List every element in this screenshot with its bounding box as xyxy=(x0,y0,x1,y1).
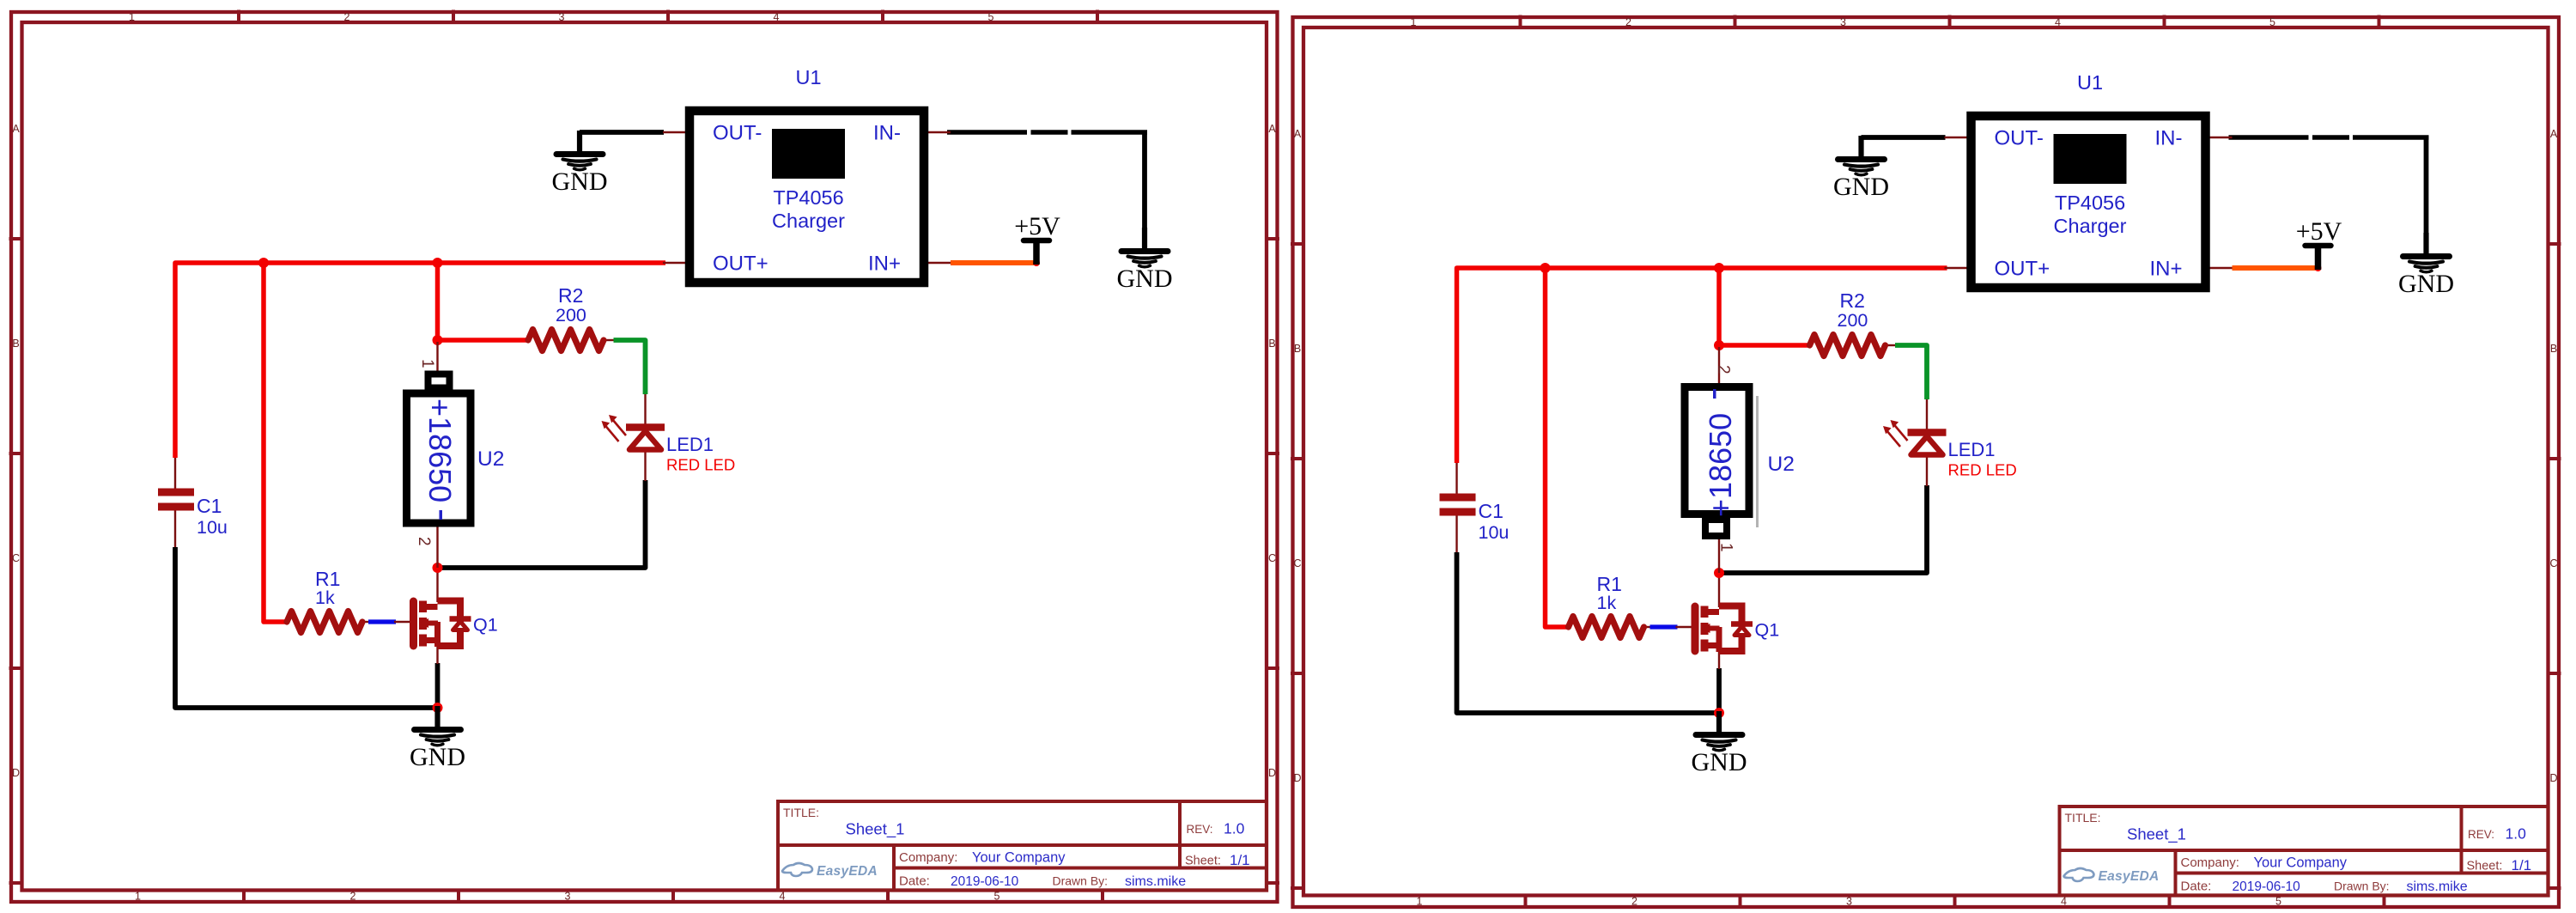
svg-text:+18650: +18650 xyxy=(422,399,458,502)
svg-text:1: 1 xyxy=(418,359,436,368)
svg-text:2: 2 xyxy=(415,537,433,546)
svg-text:U2: U2 xyxy=(477,447,504,471)
svg-text:U2: U2 xyxy=(1768,453,1795,476)
svg-text:1: 1 xyxy=(1717,543,1735,552)
svg-text:2: 2 xyxy=(1715,365,1733,374)
svg-text:+18650: +18650 xyxy=(1703,413,1738,517)
